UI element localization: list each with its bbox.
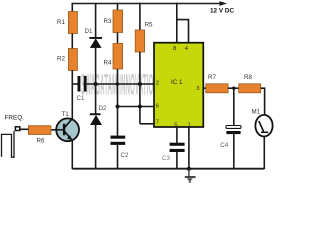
svg-text:C4: C4 [220, 142, 228, 149]
svg-text:R1: R1 [57, 19, 65, 26]
svg-text:3: 3 [196, 86, 199, 92]
wire R4 down through pin2/pin6 lines to C2 [117, 69, 119, 137]
node junction pin2/R5-column [138, 82, 142, 86]
svg-text:R2: R2 [57, 56, 65, 63]
resistor R7 [206, 84, 228, 93]
wire pin2 line to D2 [95, 84, 97, 114]
wire C4 column from junction [233, 88, 235, 126]
wire IC pin 1 to ground node [188, 127, 190, 170]
svg-text:8: 8 [173, 46, 176, 52]
resistor R2 [68, 49, 77, 71]
wire column D top (bus to R5) [139, 3, 141, 31]
svg-text:C2: C2 [121, 152, 129, 159]
node 12V DC supply arrow [220, 1, 228, 6]
node junction C1/D-column [94, 82, 98, 86]
resistor R5 [135, 30, 144, 52]
diode D2 [90, 105, 107, 125]
wire C2 to bottom bus [117, 145, 119, 169]
wire column C top (bus to R3) [117, 3, 119, 11]
wire R5 down to pin7 step [139, 52, 141, 124]
wire column A top (bus to R1) [71, 3, 73, 12]
svg-text:D2: D2 [99, 105, 107, 112]
wire D2 to bottom bus [95, 125, 97, 170]
wire R3 to R4 [117, 33, 119, 45]
svg-text:D1: D1 [85, 28, 93, 35]
node junction pin6/R4-column [116, 105, 120, 109]
capacitor C4 (polarized) [226, 126, 241, 129]
svg-text:C1: C1 [77, 95, 85, 102]
node junction R7/R8/C4 [232, 87, 235, 90]
wire R2 to T1 collector [71, 70, 73, 120]
svg-text:R6: R6 [37, 138, 45, 145]
transistor T1 [56, 111, 79, 141]
svg-text:M1: M1 [252, 109, 261, 116]
op-amp/timer IC1 [154, 43, 203, 129]
capacitor C2 [111, 136, 126, 139]
svg-text:R3: R3 [104, 18, 112, 25]
wire IC pin 4 hook [177, 20, 189, 43]
ground [185, 169, 196, 182]
wire R1 to R2 [71, 34, 73, 50]
capacitor C3 [170, 143, 185, 146]
watermark [81, 67, 162, 102]
wire bottom bus [72, 168, 264, 170]
meter M1 [252, 109, 273, 137]
svg-text:7: 7 [156, 119, 159, 125]
node junction pin2/R4-column [116, 82, 119, 85]
svg-text:R7: R7 [208, 74, 216, 81]
wire IC pin 8 to bus [176, 3, 178, 43]
wire T1 base to R6 [51, 129, 63, 131]
wire R8 to M1 column [261, 88, 265, 115]
wire top supply bus [72, 3, 221, 5]
wire pin2 line (C1 to IC pin 2) [87, 83, 155, 85]
wire pin7 line [140, 123, 155, 125]
wire T1 emitter to bottom bus [71, 140, 73, 169]
svg-text:T1: T1 [62, 111, 70, 118]
resistor R6 [28, 126, 51, 135]
resistor R4 [113, 44, 123, 70]
svg-text:C3: C3 [162, 155, 170, 162]
svg-text:2: 2 [156, 81, 159, 87]
svg-text:12 V DC: 12 V DC [210, 7, 235, 14]
svg-text:R8: R8 [244, 74, 252, 81]
wire IC pin 3 to R7 [203, 87, 206, 89]
node ground junction [187, 167, 191, 171]
capacitor C1 [78, 76, 81, 92]
svg-text:6: 6 [156, 104, 159, 110]
wire pin6 line [118, 106, 155, 108]
wire input terminal to R6 [20, 128, 29, 130]
node input terminal FREQ [15, 127, 19, 131]
wire C4 to bottom bus [233, 134, 235, 169]
svg-text:R4: R4 [104, 60, 112, 67]
node junction pin6/R5-column [138, 105, 142, 109]
wire input square wave symbol [2, 131, 15, 157]
wire column B top (bus to D1) [95, 3, 97, 38]
wire R7 to R8 [228, 87, 239, 89]
svg-text:R5: R5 [145, 22, 153, 29]
wire D1 to pin2 line [95, 48, 97, 85]
svg-text:IC 1: IC 1 [171, 79, 183, 86]
wire IC pin 5 to C3 [176, 127, 178, 144]
wire M1 to bottom bus [263, 136, 265, 169]
resistor R3 [113, 10, 123, 33]
diode D1 [85, 28, 103, 48]
svg-text:FREQ.: FREQ. [5, 114, 25, 121]
resistor R1 [68, 12, 77, 34]
wire C1 left stub [72, 83, 77, 85]
wire C3 to bottom bus [176, 152, 178, 169]
resistor R8 [239, 84, 261, 93]
